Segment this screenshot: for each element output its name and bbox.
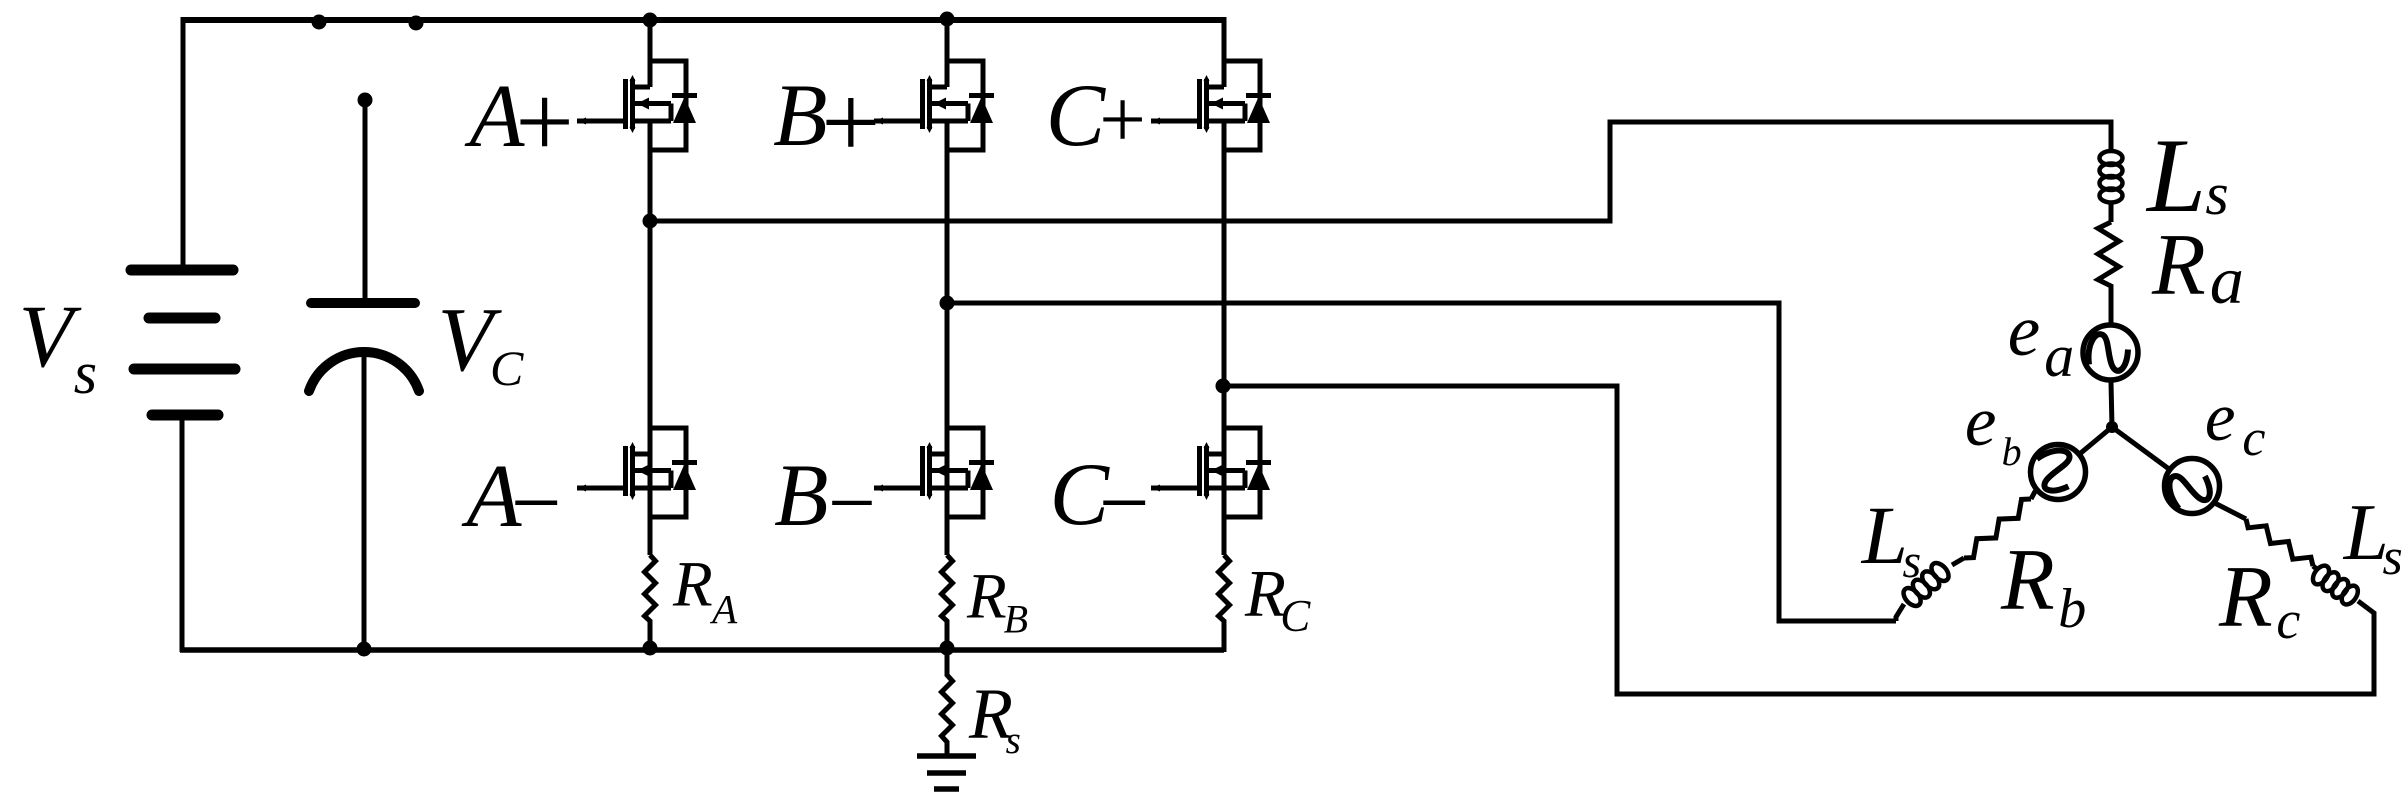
label B+ [773,64,885,181]
junction dot capacitor top [358,93,373,108]
wire leg B lower [945,121,950,555]
label Vs [19,288,98,406]
label RC [1244,557,1311,641]
wire leg B upper [945,17,950,87]
junction dot top bus 1 [312,15,327,30]
label C+ [1046,67,1150,165]
wire capacitor bottom to bus [362,350,367,650]
transistor A+ [577,61,697,150]
svg-text:a: a [2210,242,2244,318]
svg-text:L: L [1861,489,1908,581]
wire Ls-c to corner [2358,601,2374,616]
resistor RB [942,555,953,650]
wire phase A: tap to right and up to motor [650,122,2111,221]
inductor Ls phase a [2100,151,2123,203]
transistor C+ [1151,61,1271,150]
wire Ls-b to corner [1896,604,1904,621]
label Ra [2151,217,2244,318]
transistor B- [874,428,994,517]
junction dot bottom bus leg B [940,641,955,656]
svg-text:s: s [1006,719,1021,762]
battery Vs [131,270,235,415]
svg-text:+: + [1094,73,1150,165]
junction dot phase A tap [643,214,658,229]
ground [917,756,976,789]
resistor Rb [1964,499,2031,558]
inductor Ls phase c [2310,563,2361,608]
wire bottom bus [180,647,1224,653]
svg-text:s: s [1903,535,1922,588]
junction dot phase B tap [940,296,955,311]
resistor RC [1219,555,1230,652]
junction dot bottom bus leg A [643,641,658,656]
svg-text:V: V [19,288,82,386]
inductor Ls phase b [1900,560,1952,609]
svg-text:R: R [2218,549,2273,646]
svg-text:R: R [2151,217,2206,314]
wire battery bottom to bottom bus [180,420,185,652]
junction dot top bus at leg A [643,13,658,28]
wire Rc to Ls [2313,566,2318,570]
svg-text:R: R [2000,532,2055,629]
wire capacitor top stub [363,100,368,298]
wire top bus [183,17,1224,23]
svg-text:−: − [505,454,566,553]
svg-text:−: − [823,456,880,550]
svg-text:C: C [1280,591,1311,641]
wire eb to Rb [2031,491,2035,499]
label B- [774,447,880,550]
wire Ls to Ra [2109,202,2114,222]
svg-text:+: + [815,64,886,181]
transistor A- [577,428,697,517]
svg-text:s: s [2205,161,2228,227]
junction dot top bus 2 [409,16,424,31]
svg-text:b: b [2058,578,2086,640]
resistor Ra [2098,222,2119,323]
wire leg C lower [1222,121,1227,555]
svg-text:B: B [1004,596,1028,641]
label A- [462,447,566,553]
svg-text:e: e [2008,290,2040,371]
wire leg A upper [648,17,653,87]
junction dot phase C tap [1216,379,1231,394]
transistor B+ [874,61,994,150]
wire ec to Rc [2216,504,2246,520]
svg-text:B: B [774,447,828,545]
transistor C- [1151,428,1271,517]
source eb [2031,444,2086,499]
svg-text:c: c [2276,590,2300,650]
svg-text:−: − [1093,454,1154,553]
label Ls phase a [2145,117,2229,234]
svg-text:+: + [509,65,579,180]
label A+ [465,65,579,180]
resistor Rs [942,650,953,756]
junction dot top bus at leg B [940,12,955,27]
label ea [2008,290,2074,389]
resistor Rc [2246,519,2313,566]
junction dot star node [2106,421,2118,433]
wire phase B: tap right, down, right [947,303,1896,621]
wire leg A lower [648,121,653,555]
svg-text:s: s [74,340,97,406]
resistor RA [645,555,656,650]
svg-text:A: A [709,586,738,632]
svg-text:C: C [490,340,524,396]
wire ea to node [2111,382,2112,427]
label Rs [968,674,1021,762]
svg-text:b: b [2002,429,2022,474]
label Rb [2000,532,2086,640]
junction dot bottom bus capacitor [357,642,372,657]
wire left vertical from bus to battery [181,17,186,265]
label VC [438,289,525,396]
svg-text:e: e [1965,383,1997,461]
source ea [2083,325,2138,380]
svg-text:s: s [2383,529,2403,586]
svg-text:e: e [2205,379,2236,455]
label RB [966,561,1028,642]
label C- [1050,446,1154,553]
svg-text:R: R [672,549,713,621]
svg-text:a: a [2044,323,2074,389]
label Ls phase b [1861,489,1921,588]
wire phase C: tap right, down, right, up [1223,386,2374,694]
capacitor VC [309,303,419,391]
label RA [672,549,738,632]
label eb [1965,383,2022,474]
wire leg C upper [1222,17,1227,87]
wire Rb to Ls [1952,558,1964,565]
label Rc [2218,549,2300,650]
source ec [2163,459,2219,515]
svg-text:R: R [966,561,1007,633]
label ec [2205,379,2266,467]
wire node to eb [2081,427,2112,453]
label Ls phase c [2343,487,2403,586]
wire node to ec [2112,427,2168,469]
svg-text:c: c [2242,410,2265,467]
